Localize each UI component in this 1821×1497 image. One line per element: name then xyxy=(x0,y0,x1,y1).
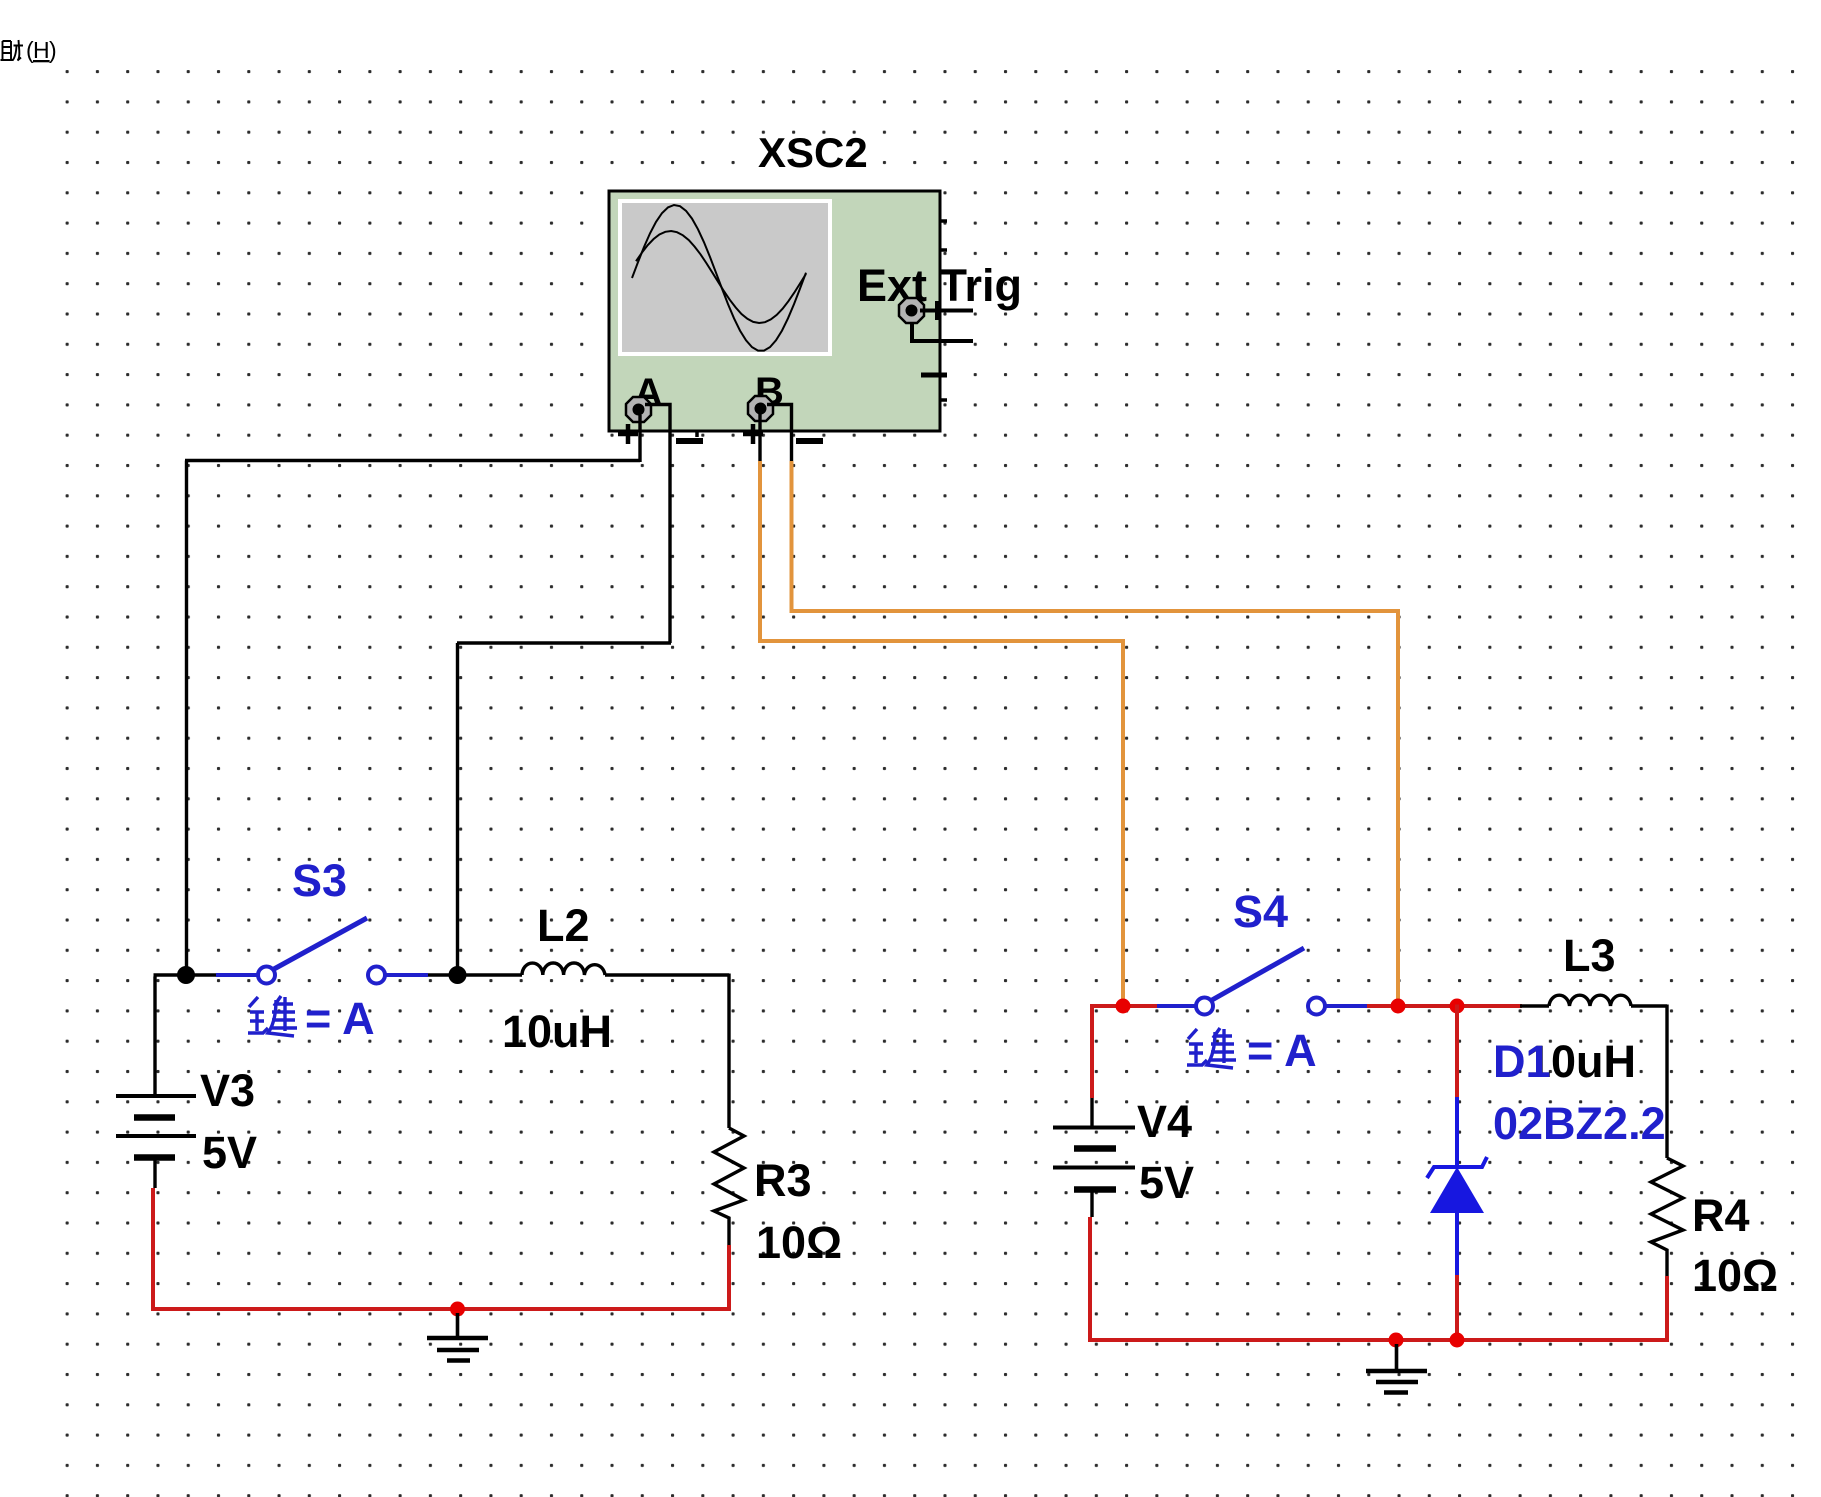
wire A+ pin stub down xyxy=(638,415,641,462)
label 键 = A (S3) xyxy=(248,993,375,1044)
inductor L3 xyxy=(1549,995,1631,1006)
node junction ground right (red) xyxy=(1389,1333,1404,1348)
node junction diode top (red) xyxy=(1450,999,1465,1014)
battery V3 xyxy=(116,1096,196,1188)
node junction ground left (red) xyxy=(450,1302,465,1317)
wire diode bottom (red) xyxy=(1455,1275,1459,1340)
B minus sign xyxy=(796,438,823,444)
node junction L2 left xyxy=(449,966,467,984)
scope display screen xyxy=(618,199,832,356)
svg-text:10Ω: 10Ω xyxy=(756,1217,842,1268)
wire L3 left (black) xyxy=(1520,1004,1549,1007)
svg-text:V4: V4 xyxy=(1137,1096,1192,1147)
A minus sign xyxy=(676,438,703,444)
wire S3 to L2 xyxy=(428,973,522,976)
wire B- horizontal (orange) xyxy=(790,609,1399,613)
ground left xyxy=(427,1313,488,1361)
node junction S4 left (red) xyxy=(1116,999,1131,1014)
wire B+ pin stub (black) xyxy=(758,414,761,461)
wire diode top (red) xyxy=(1455,1005,1459,1098)
wire B+ vertical (orange) xyxy=(758,461,762,641)
node junction S4 right (red) xyxy=(1391,999,1406,1014)
svg-text:V3: V3 xyxy=(200,1065,255,1116)
svg-text:S3: S3 xyxy=(292,855,347,906)
right edge pin nubs xyxy=(697,221,947,437)
Ext Trig minus sign xyxy=(921,373,947,378)
svg-text:L2: L2 xyxy=(537,900,590,951)
wire B+ horizontal (orange) xyxy=(758,639,1123,643)
wire A- horizontal xyxy=(457,641,671,644)
wire B+ drop to S4 left (orange) xyxy=(1121,639,1125,1006)
switch S4 xyxy=(1157,948,1367,1015)
svg-text:5V: 5V xyxy=(1139,1157,1194,1208)
wire B- hook (black) xyxy=(767,405,792,462)
node junction S3 left xyxy=(177,966,195,984)
svg-text:XSC2: XSC2 xyxy=(758,129,868,176)
wire right side down to R3 xyxy=(727,974,730,1129)
svg-text:R4: R4 xyxy=(1692,1190,1750,1241)
resistor R3 xyxy=(714,1128,744,1245)
A plus sign xyxy=(618,424,638,444)
svg-text:L3: L3 xyxy=(1563,930,1616,981)
svg-text:S4: S4 xyxy=(1233,886,1288,937)
scope trace curve 1 (large sine) xyxy=(632,205,806,351)
B plus sign xyxy=(743,424,763,444)
wire bottom left circuit (red) xyxy=(153,1188,731,1309)
wire R3 bottom (red) xyxy=(727,1245,731,1309)
wire L2 to corner xyxy=(605,973,729,976)
oscilloscope XSC2 body xyxy=(609,191,947,437)
terminal Ext Trig xyxy=(899,298,924,323)
Ext Trig lower pin L xyxy=(912,323,973,341)
svg-text:02BZ2.2: 02BZ2.2 xyxy=(1493,1098,1666,1149)
svg-text:= A: = A xyxy=(1247,1025,1317,1076)
wire top-left corner to S3 xyxy=(154,973,217,976)
svg-text:D1: D1 xyxy=(1493,1036,1551,1087)
wire A- vertical down to L2 node xyxy=(456,643,459,975)
wire A+ vertical down to S3 xyxy=(185,461,188,976)
ground right xyxy=(1366,1344,1427,1393)
scope trace curve 2 (small sine) xyxy=(636,231,806,323)
menu text 助(H) xyxy=(1,37,57,63)
Ext Trig plus sign xyxy=(928,301,946,320)
resistor R4 xyxy=(1651,1158,1683,1276)
Ext Trig pin stub xyxy=(920,309,973,313)
svg-text:R3: R3 xyxy=(754,1155,812,1206)
terminal B xyxy=(748,396,773,421)
inductor L2 xyxy=(522,963,605,975)
svg-text:10Ω: 10Ω xyxy=(1692,1250,1778,1301)
wire top right circuit (red) xyxy=(1090,1005,1522,1099)
wire L3 to corner xyxy=(1631,1004,1667,1007)
wire A+ horizontal to left xyxy=(185,459,640,462)
wire B- vertical (orange) xyxy=(790,461,794,611)
zener diode D1 xyxy=(1427,1097,1487,1275)
svg-text:= A: = A xyxy=(305,993,375,1044)
svg-text:10uH: 10uH xyxy=(502,1006,612,1057)
svg-text:Ext Trig: Ext Trig xyxy=(857,260,1022,311)
svg-text:5V: 5V xyxy=(202,1127,257,1178)
node junction diode bottom (red) xyxy=(1450,1333,1465,1348)
wire bottom right circuit (red) xyxy=(1090,1217,1669,1340)
switch S3 xyxy=(216,918,428,984)
terminal A xyxy=(626,397,651,422)
wire right side down to R4 xyxy=(1665,1005,1668,1159)
svg-text:H: H xyxy=(33,37,50,63)
wire R4 bottom (red) xyxy=(1665,1276,1669,1340)
battery V4 xyxy=(1053,1098,1135,1217)
svg-text:): ) xyxy=(49,37,57,63)
wire battery V3 top riser xyxy=(153,977,156,1097)
wire B- drop to S4 right (orange) xyxy=(1396,609,1400,1006)
label 键 = A (S4) xyxy=(1187,1025,1317,1076)
wire A- hook xyxy=(645,405,670,644)
